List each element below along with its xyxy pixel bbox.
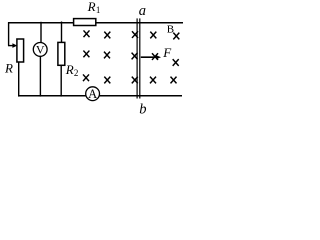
- flux cross row2 col3: [132, 53, 138, 60]
- wire top horizontal, R1 to right end: [96, 22, 183, 24]
- wire top horizontal (node a rail), left segment to R1: [8, 22, 74, 24]
- svg-text:R: R: [65, 62, 74, 77]
- svg-text:1: 1: [96, 5, 101, 15]
- flux cross row3 col1: [83, 74, 89, 81]
- flux cross row1 col2: [104, 32, 110, 39]
- wire bottom horizontal, left segment to ammeter: [18, 95, 86, 97]
- svg-text:R: R: [87, 0, 96, 14]
- flux cross row3 col3: [132, 77, 138, 84]
- wire voltmeter branch upper: [40, 22, 42, 43]
- rheostat R arrow lead: [8, 45, 13, 47]
- rheostat R arrowhead: [12, 43, 17, 48]
- resistor R2 body box: [58, 42, 65, 65]
- wire bottom horizontal, ammeter to right end: [99, 95, 182, 97]
- flux cross right row3 col1: [150, 77, 156, 84]
- flux cross row1 col1: [84, 30, 90, 37]
- wire R2 branch lower: [60, 65, 62, 96]
- rheostat R body box: [17, 39, 24, 62]
- resistor R1 body box: [74, 19, 96, 26]
- svg-text:b: b: [139, 101, 146, 117]
- svg-text:A: A: [88, 87, 97, 101]
- flux cross right row1 col2: [173, 33, 179, 40]
- flux cross right row2 col1 on F arrow: [152, 53, 158, 60]
- svg-text:F: F: [162, 45, 172, 60]
- rod ab right line: [139, 18, 141, 98]
- wire voltmeter branch lower: [39, 56, 41, 96]
- svg-text:R: R: [4, 61, 13, 76]
- wire R2 branch upper: [61, 22, 63, 43]
- wire below rheostat R: [18, 62, 20, 97]
- flux cross row2 col2: [104, 52, 110, 59]
- flux cross right row1 col1: [150, 32, 156, 39]
- svg-text:B: B: [167, 24, 174, 36]
- svg-text:V: V: [36, 43, 45, 57]
- force F arrow shaft: [141, 56, 157, 58]
- flux cross right row3 col2: [171, 77, 177, 84]
- force F arrowhead: [156, 55, 161, 59]
- wire left vertical drop to rheostat arrow: [8, 22, 10, 45]
- flux cross row3 col2: [104, 77, 110, 84]
- svg-text:a: a: [139, 3, 146, 19]
- flux cross row1 col3: [132, 31, 138, 38]
- voltmeter V circle: [33, 43, 47, 57]
- flux cross row2 col1: [83, 51, 89, 58]
- flux cross right row2 col2: [173, 59, 179, 66]
- rod ab left line: [136, 18, 138, 98]
- svg-text:2: 2: [74, 68, 79, 78]
- ammeter A circle: [86, 87, 100, 101]
